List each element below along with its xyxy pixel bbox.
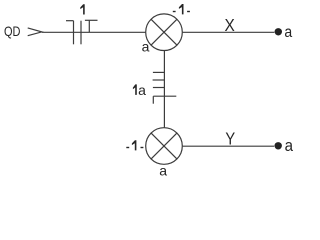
port arrow QD input [28, 28, 42, 36]
capacitor-like element 1: plate B [80, 21, 82, 45]
node dot a bottom [275, 142, 282, 149]
mixer U2 cross line 2 [151, 133, 177, 159]
svg-text:a: a [159, 163, 167, 179]
capacitor-like element 1: T bar [85, 19, 98, 21]
capacitor-like element 1: T stem [88, 20, 90, 32]
element 1a: tick 2 [153, 79, 165, 81]
label 1 [80, 4, 84, 14]
mixer U2 cross line 1 [151, 133, 177, 159]
mixer U1 cross line 2 [151, 19, 177, 45]
svg-text:a: a [138, 82, 146, 98]
svg-text:QD: QD [4, 23, 21, 39]
wire input to mixer U1 [42, 31, 146, 33]
element 1a: tick 1 [153, 71, 165, 73]
svg-text:Y: Y [225, 128, 235, 148]
svg-text:X: X [225, 15, 236, 35]
mixer U1 circle [146, 14, 183, 51]
element 1a: tick 3 [153, 87, 165, 89]
label -1- top [173, 4, 190, 14]
wire mixer U1 to node X [183, 31, 275, 33]
wire vertical between mixers [163, 51, 165, 128]
mixer U1 cross line 1 [151, 19, 177, 45]
label 1a [133, 84, 137, 95]
node dot a top [275, 28, 282, 35]
svg-text:a: a [285, 137, 293, 155]
capacitor-like element 1: plate A [73, 21, 75, 45]
element 1a: crossing bar [153, 95, 176, 97]
label -1- bottom [126, 140, 143, 150]
svg-text:a: a [284, 24, 292, 41]
mixer U2 circle [146, 128, 183, 165]
svg-text:a: a [142, 39, 150, 55]
element 1a: corner tick [152, 96, 154, 104]
wire mixer U2 to node Y [183, 145, 275, 147]
capacitor-like element 1: left top stub [66, 20, 74, 22]
